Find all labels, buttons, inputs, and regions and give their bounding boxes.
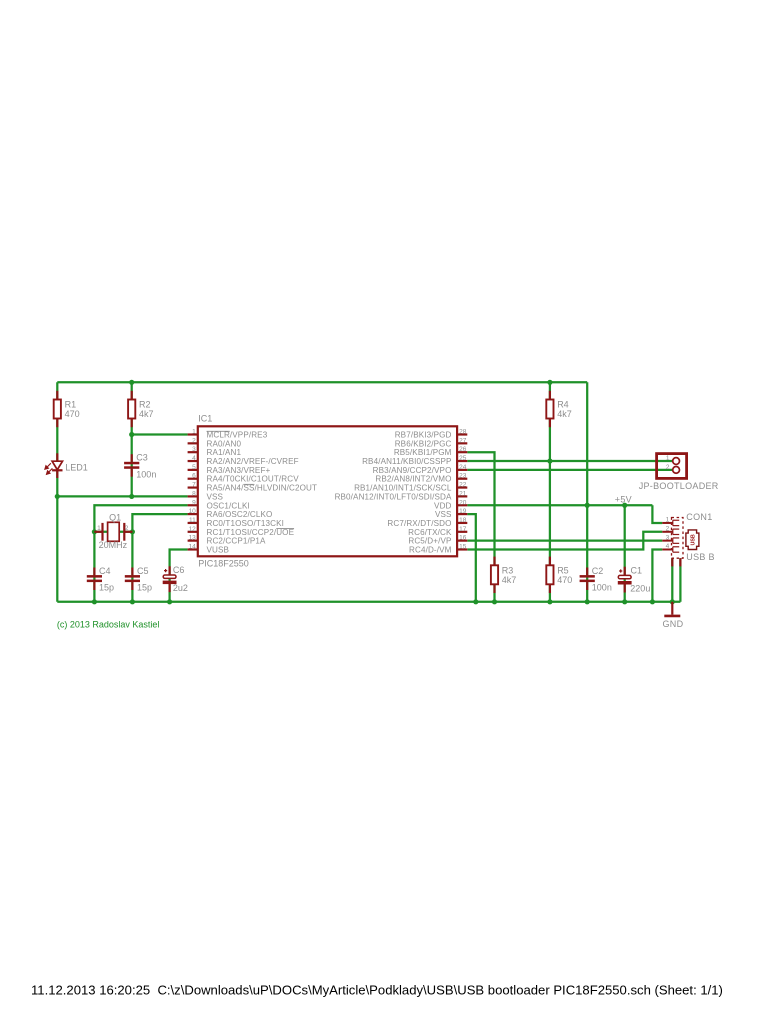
svg-text:10: 10 — [189, 508, 197, 515]
IC1 pin 23 stub — [457, 478, 467, 480]
svg-text:15p: 15p — [99, 583, 114, 593]
IC1 pin 8 stub — [188, 495, 198, 497]
junction C4 bottom rail — [92, 599, 97, 604]
svg-text:11: 11 — [189, 517, 196, 524]
svg-text:25: 25 — [459, 455, 467, 462]
wire pin 24 row to JP-BOOTLOADER pin 2 — [467, 469, 672, 471]
CON1 pin 3 stub — [662, 538, 679, 543]
IC1 pin 26 stub — [457, 451, 467, 453]
svg-text:R3: R3 — [502, 566, 514, 576]
svg-text:RC1/T1OSI/CCP2/UOE: RC1/T1OSI/CCP2/UOE — [207, 528, 295, 537]
IC1 pin 11 stub — [188, 522, 198, 524]
svg-text:7: 7 — [192, 482, 196, 489]
svg-text:GND: GND — [663, 619, 684, 629]
svg-text:VSS: VSS — [435, 510, 452, 519]
IC1 pin 7 stub — [188, 486, 198, 488]
svg-text:220u: 220u — [630, 584, 650, 594]
svg-text:CON1: CON1 — [686, 512, 712, 522]
ground GND symbol — [671, 602, 673, 615]
svg-text:2: 2 — [192, 437, 196, 444]
svg-text:3: 3 — [666, 534, 670, 541]
IC1 pin 12 stub — [188, 531, 198, 533]
svg-text:15p: 15p — [137, 583, 152, 593]
svg-text:VDD: VDD — [434, 501, 451, 510]
LED1 emission arrows — [45, 463, 53, 474]
connector JP1 JP-BOOTLOADER box — [657, 454, 687, 479]
svg-text:28: 28 — [459, 429, 467, 436]
svg-text:8: 8 — [192, 490, 196, 497]
svg-text:MCLR/VPP/RE3: MCLR/VPP/RE3 — [207, 431, 268, 440]
svg-text:27: 27 — [459, 437, 467, 444]
svg-text:4: 4 — [192, 455, 196, 462]
svg-text:4k7: 4k7 — [557, 409, 572, 419]
IC1 pin 18 stub — [457, 522, 467, 524]
svg-text:RB3/AN9/CCP2/VPO: RB3/AN9/CCP2/VPO — [373, 466, 452, 475]
CON1 shield stub left — [671, 558, 673, 566]
wire R4 column — [549, 382, 551, 461]
svg-text:C1: C1 — [631, 565, 643, 575]
svg-text:2: 2 — [666, 525, 670, 532]
junction LED column VSS row — [55, 494, 60, 499]
junction crystal pin 2 — [130, 529, 135, 534]
wire CON1 shield right to bottom rail — [679, 558, 681, 602]
svg-text:R5: R5 — [557, 566, 569, 576]
IC1 pin 13 stub — [188, 540, 198, 542]
svg-text:19: 19 — [459, 508, 467, 515]
CON1 shield stub right — [679, 558, 681, 566]
wire GND bottom rail — [57, 601, 680, 603]
svg-text:C3: C3 — [136, 453, 148, 463]
svg-text:2: 2 — [125, 525, 129, 532]
svg-text:16: 16 — [459, 535, 467, 542]
svg-text:1: 1 — [97, 525, 101, 532]
svg-text:RA2/AN2/VREF-/CVREF: RA2/AN2/VREF-/CVREF — [207, 457, 299, 466]
svg-text:22: 22 — [459, 482, 467, 489]
svg-text:RB6/KBI2/PGC: RB6/KBI2/PGC — [395, 439, 452, 448]
svg-text:2: 2 — [666, 464, 670, 471]
wire OSC1 pin 9 to C4 column — [94, 505, 187, 602]
svg-text:4k7: 4k7 — [502, 575, 517, 585]
connector CON1 dashed outline — [672, 518, 684, 559]
svg-text:23: 23 — [459, 473, 467, 480]
wire +5V to CON1 pin 1 — [652, 505, 662, 523]
resistor R5 — [549, 557, 551, 566]
junction R4 bottom pin25 row — [547, 458, 552, 463]
resistor R3 — [493, 557, 495, 566]
junction C2 +5V row — [585, 503, 590, 508]
wire left rail (LED column) — [56, 382, 58, 602]
svg-text:RA0/AN0: RA0/AN0 — [207, 439, 242, 448]
junction R4 top rail — [547, 380, 552, 385]
svg-text:R4: R4 — [557, 400, 569, 410]
svg-text:20MHz: 20MHz — [99, 540, 128, 550]
IC1 pin 16 stub — [457, 540, 467, 542]
wire CON1 pin 4 to bottom rail — [652, 549, 662, 601]
wire CON1 shield left to bottom rail — [671, 558, 673, 602]
IC1 pin 10 stub — [188, 513, 198, 515]
svg-text:26: 26 — [459, 446, 467, 453]
svg-text:RA5/AN4/SS/HLVDIN/C2OUT: RA5/AN4/SS/HLVDIN/C2OUT — [207, 484, 318, 493]
svg-text:15: 15 — [459, 543, 467, 550]
IC1 pin 2 stub — [188, 442, 198, 444]
op-amp/IC U1: IC1 PIC18F2550 box — [198, 426, 457, 556]
svg-text:RC0/T1OSO/T13CKI: RC0/T1OSO/T13CKI — [207, 519, 284, 528]
svg-text:20: 20 — [459, 499, 467, 506]
IC1 pin 9 stub — [188, 504, 198, 506]
svg-text:C4: C4 — [99, 566, 111, 576]
IC1 pin 21 stub — [457, 495, 467, 497]
junction R3 bottom rail — [492, 599, 497, 604]
svg-text:13: 13 — [189, 535, 197, 542]
junction C3 bottom VSS row — [129, 494, 134, 499]
svg-text:VUSB: VUSB — [207, 545, 230, 554]
svg-text:RB2/AN8/INT2/VMO: RB2/AN8/INT2/VMO — [375, 475, 451, 484]
svg-text:IC1: IC1 — [198, 414, 212, 424]
svg-text:21: 21 — [459, 490, 467, 497]
junction R2/C3/pin1 — [129, 432, 134, 437]
junction GND bottom rail — [670, 599, 675, 604]
svg-text:24: 24 — [459, 464, 467, 471]
svg-text:1: 1 — [666, 517, 670, 524]
wire VSS pin 19 to bottom rail — [467, 514, 476, 602]
svg-text:PIC18F2550: PIC18F2550 — [198, 559, 249, 569]
capacitor C5 — [131, 568, 133, 576]
wire C1 column — [624, 505, 626, 602]
CON1 pin 2 stub — [662, 529, 679, 534]
svg-text:100n: 100n — [592, 583, 612, 593]
svg-text:RA1/AN1: RA1/AN1 — [207, 448, 242, 457]
crystal Q1 — [94, 522, 132, 541]
svg-text:RC6/TX/CK: RC6/TX/CK — [408, 528, 452, 537]
svg-text:18: 18 — [459, 517, 467, 524]
svg-text:RC4/D-/VM: RC4/D-/VM — [409, 545, 452, 554]
IC1 pin 6 stub — [188, 478, 198, 480]
capacitor C3 — [131, 454, 133, 462]
svg-text:RB0/AN12/INT0/LFT0/SDI/SDA: RB0/AN12/INT0/LFT0/SDI/SDA — [335, 492, 452, 501]
JP1 pin 2 circle — [673, 466, 680, 473]
junction C1 bottom rail — [622, 599, 627, 604]
capacitor C4 — [93, 568, 95, 576]
svg-text:R2: R2 — [139, 400, 151, 410]
wire crystal row — [94, 531, 132, 533]
wire +5V VDD pin 20 row — [467, 504, 652, 506]
junction VSS line bottom rail — [473, 599, 478, 604]
wire R5 column — [549, 461, 551, 602]
junction C1 +5V row — [622, 503, 627, 508]
IC1 pin 28 stub — [457, 433, 467, 435]
svg-text:470: 470 — [65, 409, 80, 419]
svg-text:LED1: LED1 — [65, 462, 88, 472]
wire C2 column from top rail to bottom rail — [586, 382, 588, 602]
IC1 pin 5 stub — [188, 469, 198, 471]
CON1 pin 4 stub — [662, 547, 679, 552]
svg-text:R1: R1 — [65, 400, 77, 410]
svg-text:6: 6 — [192, 473, 196, 480]
USB-B plug icon — [686, 530, 699, 550]
svg-text:RC5/D+/VP: RC5/D+/VP — [408, 537, 451, 546]
svg-text:+5V: +5V — [615, 494, 632, 504]
svg-text:4: 4 — [666, 543, 670, 550]
IC1 pin 27 stub — [457, 442, 467, 444]
svg-text:USB B: USB B — [686, 552, 715, 562]
svg-text:11.12.2013 16:20:25 C:\z\Down: 11.12.2013 16:20:25 C:\z\Downloads\uP\DO… — [31, 982, 723, 997]
svg-text:RB7/BKI3/PGD: RB7/BKI3/PGD — [395, 431, 452, 440]
svg-text:C6: C6 — [173, 565, 185, 575]
IC1 pin 15 stub — [457, 548, 467, 550]
wire to IC pin 1 — [132, 433, 188, 435]
IC1 pin 22 stub — [457, 486, 467, 488]
IC1 pin 4 stub — [188, 460, 198, 462]
resistor R1 — [56, 391, 58, 400]
junction CON1 pin4 bottom rail — [650, 599, 655, 604]
wire D- pin 15 to CON1 pin 2 — [467, 532, 662, 550]
wire R2 column — [131, 382, 133, 434]
svg-text:RA3/AN3/VREF+: RA3/AN3/VREF+ — [207, 466, 271, 475]
IC1 pin 24 stub — [457, 469, 467, 471]
polarized capacitor C6 — [169, 566, 171, 575]
IC1 pin 17 stub — [457, 531, 467, 533]
svg-text:C2: C2 — [592, 566, 604, 576]
svg-text:VSS: VSS — [207, 492, 224, 501]
junction R5 bottom rail — [547, 599, 552, 604]
capacitor C2 — [586, 568, 588, 576]
svg-text:14: 14 — [189, 543, 197, 550]
junction crystal pin 1 — [92, 529, 97, 534]
svg-text:4k7: 4k7 — [139, 409, 154, 419]
IC1 pin 25 stub — [457, 460, 467, 462]
svg-text:JP-BOOTLOADER: JP-BOOTLOADER — [639, 481, 719, 491]
svg-text:USB: USB — [691, 534, 697, 545]
svg-text:1: 1 — [666, 455, 670, 462]
junction C5 bottom rail — [130, 599, 135, 604]
IC1 pin 3 stub — [188, 451, 198, 453]
IC1 pin 20 stub — [457, 504, 467, 506]
svg-text:OSC1/CLKI: OSC1/CLKI — [207, 501, 250, 510]
svg-text:2u2: 2u2 — [173, 583, 188, 593]
svg-text:(c) 2013 Radoslav Kastiel: (c) 2013 Radoslav Kastiel — [57, 620, 160, 630]
LED LED1 — [52, 453, 62, 478]
wire D+ pin 16 row to CON1 pin 3 — [467, 540, 662, 542]
wire C3 column — [131, 435, 133, 497]
svg-text:RC7/RX/DT/SDO: RC7/RX/DT/SDO — [387, 519, 451, 528]
svg-text:RB5/KBI1/PGM: RB5/KBI1/PGM — [394, 448, 452, 457]
svg-text:RC2/CCP1/P1A: RC2/CCP1/P1A — [207, 537, 266, 546]
resistor R4 — [549, 391, 551, 400]
resistor R2 — [131, 391, 133, 400]
IC1 pin 1 stub — [188, 433, 198, 435]
svg-text:5: 5 — [192, 464, 196, 471]
svg-text:9: 9 — [192, 499, 196, 506]
svg-text:C5: C5 — [137, 566, 149, 576]
wire +5V top rail — [57, 381, 587, 383]
junction R2 top rail — [129, 380, 134, 385]
IC1 pin 19 stub — [457, 513, 467, 515]
junction C2 bottom rail — [585, 599, 590, 604]
svg-text:3: 3 — [192, 446, 196, 453]
IC1 pin 14 stub — [188, 548, 198, 550]
svg-text:1: 1 — [192, 429, 196, 436]
wire pin 26 to R3 column — [467, 452, 494, 602]
svg-text:RB1/AN10/INT1/SCK/SCL: RB1/AN10/INT1/SCK/SCL — [354, 484, 452, 493]
svg-text:17: 17 — [459, 526, 467, 533]
svg-text:RB4/AN11/KBI0/CSSPP: RB4/AN11/KBI0/CSSPP — [362, 457, 451, 466]
svg-text:100n: 100n — [136, 469, 156, 479]
polarized capacitor C1 — [624, 567, 626, 576]
wire VSS pin 8 row — [57, 495, 187, 497]
junction C6 bottom rail — [167, 599, 172, 604]
svg-text:RA6/OSC2/CLKO: RA6/OSC2/CLKO — [207, 510, 273, 519]
wire pin 25 row to JP-BOOTLOADER pin 1 — [467, 460, 672, 462]
CON1 pin 1 stub — [662, 520, 679, 525]
wire OSC2 pin 10 to C5 column — [132, 514, 187, 602]
svg-text:RA4/T0CKI/C1OUT/RCV: RA4/T0CKI/C1OUT/RCV — [207, 475, 300, 484]
svg-text:12: 12 — [189, 526, 197, 533]
wire VUSB pin 14 to C6 column — [170, 549, 188, 601]
svg-text:470: 470 — [557, 575, 572, 585]
svg-text:Q1: Q1 — [109, 513, 121, 523]
JP1 pin 1 circle — [673, 458, 680, 465]
